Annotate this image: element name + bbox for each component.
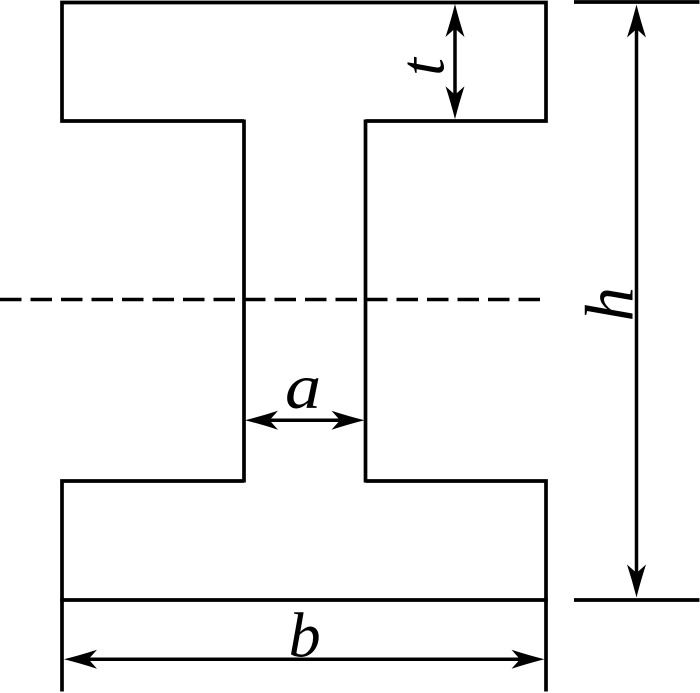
web left edge [242, 120, 246, 483]
bottom flange bottom line [60, 598, 548, 602]
dashed neutral-axis centerline [0, 298, 540, 302]
svg-text:h: h [572, 287, 648, 322]
web right edge [364, 120, 368, 483]
dimension arrow b (horizontal double arrow) [64, 650, 545, 669]
h dimension bottom tick line [574, 598, 700, 602]
I-beam top flange outline [62, 3, 546, 122]
h dimension top tick line [574, 0, 700, 4]
I-beam bottom flange outline [62, 481, 546, 692]
dimension arrow t (vertical double arrow) [446, 4, 465, 119]
svg-text:b: b [289, 600, 321, 671]
svg-text:a: a [285, 351, 321, 422]
svg-text:t: t [386, 56, 457, 76]
dimension arrow a (horizontal double arrow) [245, 411, 365, 430]
dimension arrow h (vertical double arrow) [627, 5, 646, 598]
